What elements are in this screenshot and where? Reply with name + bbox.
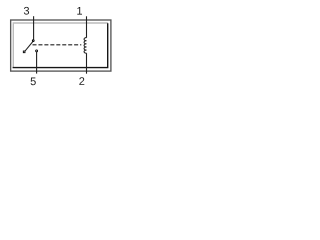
pin number 1 <box>77 7 82 15</box>
relay body inner bevel shadow (bottom and right) <box>13 23 108 67</box>
pin number 5 <box>31 78 36 86</box>
pin 1 wire <box>86 16 88 37</box>
switch pivot node <box>32 40 34 42</box>
pin number 2 <box>79 77 84 85</box>
pin number 3 <box>24 7 29 15</box>
coil L1 <box>84 38 86 54</box>
switch contact node <box>36 50 38 52</box>
actuation link (dashed) between blade and coil <box>33 44 82 46</box>
pin 3 wire <box>33 16 35 39</box>
pin 2 wire <box>86 53 88 73</box>
pin 5 wire <box>36 52 38 74</box>
relay K1 outer body outline <box>11 20 111 71</box>
switch blade tip square <box>23 51 25 53</box>
relay body inner bevel highlight (top and left) <box>13 23 108 67</box>
switch blade <box>25 42 33 51</box>
